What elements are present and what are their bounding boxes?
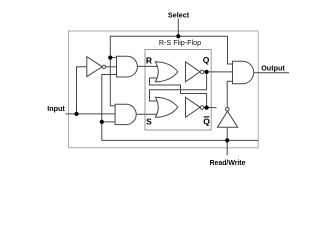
wire S (AND to OR) [136, 113, 159, 115]
junction select/AND1 [108, 56, 112, 60]
wire Read/Write to inverter base [226, 127, 228, 140]
inverter (Read/Write, pointing up) [217, 108, 237, 128]
wire inverter output to AND R [106, 66, 117, 68]
wire select distribution: top run, drop to output AND, drop to write ANDs [110, 36, 232, 106]
outer cell box [69, 31, 259, 148]
junction read-write riser [100, 120, 104, 124]
wire Read/Write label stub [226, 140, 228, 155]
junction Q [205, 70, 209, 74]
wire feedback Q to bottom OR [150, 72, 207, 101]
OR gate (S side) [155, 97, 178, 117]
label Q-bar [203, 116, 210, 126]
inverter (input) [87, 57, 106, 77]
label S [146, 117, 152, 127]
svg-text:Input: Input [47, 104, 65, 113]
junction Qbar [205, 106, 209, 110]
label Output [261, 64, 285, 73]
label R [146, 56, 152, 66]
svg-text:Output: Output [261, 64, 285, 73]
OR gate (R side) [155, 62, 178, 82]
wire Select stem [177, 19, 179, 37]
R-S flip-flop box [145, 50, 211, 131]
label R-S Flip-Flop [157, 38, 202, 48]
wire Input line [66, 113, 116, 115]
svg-text:Select: Select [168, 11, 190, 20]
svg-text:Q: Q [203, 55, 210, 65]
AND gate (R write) [117, 56, 138, 77]
label Q [203, 55, 210, 65]
wire feedback Qbar to top OR [150, 78, 207, 108]
wire Qbar stub [204, 107, 217, 109]
label Select [168, 11, 190, 20]
AND gate (output) [233, 61, 254, 83]
wire R (AND to OR) [137, 65, 158, 67]
label Read/Write [210, 160, 246, 167]
svg-text:R-S Flip-Flop: R-S Flip-Flop [159, 38, 201, 47]
wire Read/Write horizontal [102, 139, 258, 141]
svg-text:Q: Q [203, 116, 210, 126]
inverter (S side NOR) [186, 97, 204, 117]
wire Output line [254, 72, 289, 74]
junction read-write [225, 138, 229, 142]
junction select [176, 34, 180, 38]
wire Read/Write riser and stubs to both write ANDs [102, 75, 117, 141]
svg-text:R: R [146, 56, 152, 66]
wire Q to output AND [204, 71, 233, 73]
svg-text:S: S [146, 117, 152, 127]
wire input to inverter [77, 67, 87, 114]
AND gate (S write) [115, 104, 136, 124]
svg-text:Read/Write: Read/Write [210, 160, 246, 167]
wire read inverter to output AND [227, 81, 232, 107]
junction input [74, 112, 78, 116]
inverter (R side NOR) [186, 62, 204, 82]
label Input [47, 104, 65, 113]
